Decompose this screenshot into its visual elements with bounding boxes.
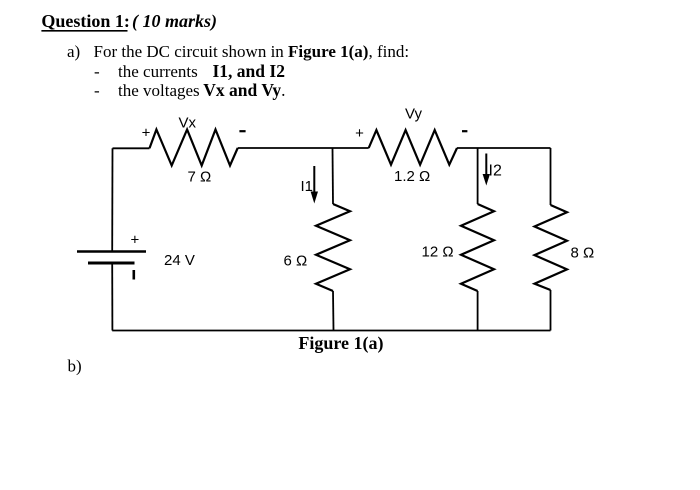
battery 24V: short negative plate — [88, 262, 135, 265]
resistor 1.2 ohm — [369, 130, 457, 165]
wire: top rail left segment — [113, 147, 150, 149]
svg-text:7 Ω: 7 Ω — [188, 169, 212, 186]
battery - terminal tick — [133, 270, 136, 280]
svg-text:the voltages: the voltages — [118, 81, 200, 100]
svg-text:6 Ω: 6 Ω — [284, 253, 308, 270]
resistor 12 ohm — [461, 204, 494, 291]
svg-text:( 10 marks): ( 10 marks) — [132, 11, 217, 32]
resistor 7 ohm — [150, 130, 238, 166]
svg-text:1.2 Ω: 1.2 Ω — [394, 168, 430, 185]
svg-text:a): a) — [67, 42, 80, 61]
resistor 8 ohm — [535, 205, 568, 290]
svg-text:+: + — [142, 125, 151, 142]
svg-text:I1: I1 — [301, 178, 314, 195]
wire: top rail right segment — [457, 147, 551, 149]
label - (Vy) — [462, 130, 467, 132]
svg-text:+: + — [131, 232, 140, 249]
svg-text:I2: I2 — [489, 163, 502, 180]
title underline — [41, 30, 127, 32]
svg-text:the currents: the currents — [118, 62, 198, 81]
svg-text:12 Ω: 12 Ω — [422, 243, 454, 260]
resistor 6 ohm — [316, 204, 350, 291]
svg-text:Vy: Vy — [405, 105, 422, 122]
wire: left vertical top (battery + to top rail) — [111, 148, 113, 251]
svg-text:-: - — [94, 62, 100, 81]
svg-text:8 Ω: 8 Ω — [571, 245, 595, 262]
wire: 6 ohm branch top — [332, 148, 335, 204]
wire: 12 ohm branch bottom — [477, 291, 479, 331]
label - (Vx) — [239, 130, 245, 132]
svg-text:Figure 1(a): Figure 1(a) — [298, 333, 383, 354]
current arrow I2 — [483, 154, 490, 186]
svg-text:Vx: Vx — [179, 114, 197, 131]
svg-text:Question 1:: Question 1: — [41, 11, 130, 31]
wire: 12 ohm branch top — [477, 148, 479, 204]
wire: right vertical bottom — [550, 290, 552, 331]
svg-text:Vx and Vy.: Vx and Vy. — [203, 80, 285, 100]
svg-text:-: - — [94, 81, 100, 100]
svg-text:For the DC circuit shown in Fi: For the DC circuit shown in Figure 1(a),… — [94, 42, 410, 61]
svg-text:b): b) — [68, 357, 82, 376]
svg-text:+: + — [355, 125, 364, 142]
wire: right vertical top (8 ohm branch) — [550, 148, 552, 205]
wire: bottom rail — [112, 330, 550, 332]
wire: top rail middle segment — [238, 147, 369, 149]
current arrow I1 — [311, 166, 318, 204]
wire: 6 ohm branch bottom — [332, 291, 335, 331]
svg-text:I1, and I2: I1, and I2 — [213, 61, 285, 81]
svg-text:24 V: 24 V — [164, 252, 195, 269]
wire: left vertical bottom — [111, 263, 113, 331]
battery 24V: long positive plate — [77, 250, 146, 253]
